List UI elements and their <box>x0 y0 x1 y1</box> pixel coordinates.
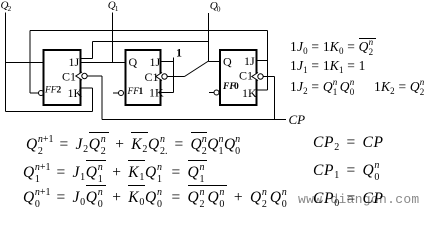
pin label FF1 1K <box>149 86 164 100</box>
wire Qbar2 left vertical <box>29 31 31 94</box>
node Q0 label <box>210 0 221 14</box>
wire FF2 Q output <box>6 62 44 64</box>
svg-text:1K: 1K <box>242 86 257 100</box>
wire Q1 vertical <box>112 13 114 63</box>
designator FF1 <box>127 87 144 97</box>
svg-text:2: 2 <box>8 4 12 13</box>
equation Q0 next state <box>23 185 290 207</box>
svg-text:C1: C1 <box>62 70 76 84</box>
node Q2 label <box>1 0 12 13</box>
watermark <box>298 192 420 207</box>
flip-flop FF1 box <box>126 50 161 105</box>
svg-text:1: 1 <box>176 46 182 60</box>
pin label FF1 1J <box>150 55 161 69</box>
bubble FF2 Qbar <box>39 91 44 96</box>
wire FF2 1K input <box>81 87 93 89</box>
wire FF0 1J input <box>257 60 268 62</box>
bubble FF1 C1 <box>162 74 167 79</box>
svg-text:FF: FF <box>44 86 57 96</box>
wire diagonal Q0 to FF1 C1 <box>185 61 209 77</box>
wire FF0 Qbar stub <box>209 92 214 94</box>
wire CP right vertical <box>274 77 276 120</box>
svg-text:1K: 1K <box>68 86 83 100</box>
svg-text:C1: C1 <box>239 69 253 83</box>
svg-text:1J: 1J <box>69 55 80 69</box>
wire Q0 branch vertical <box>92 42 94 59</box>
pin label FF0 1K <box>242 86 257 100</box>
wire FF0 1K input <box>257 89 268 91</box>
equation CP1 = Q0^n <box>313 162 382 180</box>
wire FF2 Qbar stub <box>30 92 39 94</box>
wire Q0 vertical <box>208 13 210 61</box>
pin label FF1 Q <box>129 55 138 69</box>
designator FF0 <box>222 82 239 92</box>
pin label FF0 1J <box>244 54 255 68</box>
wire FF1 Q output to FF2 1J <box>81 62 126 64</box>
pin label FF2 1K <box>68 86 83 100</box>
svg-text:0: 0 <box>234 82 239 92</box>
equation CP2 = CP <box>313 134 384 152</box>
wire FF1 C1 horizontal <box>167 76 185 78</box>
pin label FF0 C1 <box>239 69 253 83</box>
wire FF0 JK vertical <box>267 31 269 91</box>
bubble FF1 Qbar <box>119 91 124 96</box>
wire Q0 branch horizontal <box>93 41 209 43</box>
wire CP left vertical <box>101 76 103 120</box>
wire FF1 1J input <box>161 61 174 63</box>
clock wedge FF2 <box>76 72 82 80</box>
bubble FF0 C1 <box>258 74 263 79</box>
svg-text:2: 2 <box>57 86 62 96</box>
equation 1K2 = Q2^n <box>374 79 426 96</box>
wire FF0 C1 horizontal <box>263 76 275 78</box>
svg-text:1J: 1J <box>244 54 255 68</box>
svg-text:0: 0 <box>217 5 221 14</box>
clock wedge FF0 <box>252 73 258 81</box>
constant 1 label <box>176 46 182 60</box>
flip-flop FF0 box <box>220 50 257 105</box>
wire FF2 C1 to CP <box>87 75 102 77</box>
designator FF2 <box>44 86 62 96</box>
wire constant-1 vertical <box>173 58 175 93</box>
node Q1 label <box>108 0 119 13</box>
equation Q1 next state <box>23 160 207 182</box>
svg-text:FF: FF <box>127 87 140 97</box>
svg-text:1: 1 <box>139 87 144 97</box>
svg-text:1J: 1J <box>150 55 161 69</box>
equation Q2 next state <box>26 132 241 154</box>
flip-flop FF2 box <box>44 50 81 105</box>
wire Q2 vertical <box>5 13 7 112</box>
wire CP horizontal <box>102 119 286 121</box>
wire Qbar2 top horizontal <box>30 30 268 32</box>
svg-text:1: 1 <box>115 4 119 13</box>
equation CP0 = CP <box>313 190 384 208</box>
equation 1J2 = Q1^n Q0^n <box>290 79 357 96</box>
equation 1J1 = 1K1 = 1 <box>290 58 366 75</box>
clock wedge FF1 <box>156 73 162 81</box>
pin label FF2 C1 <box>62 70 76 84</box>
svg-text:CP: CP <box>289 112 306 127</box>
pin label FF1 C1 <box>145 70 159 84</box>
bubble FF2 C1 <box>82 73 87 78</box>
wire FF2 1J upper input <box>81 58 93 60</box>
bubble FF0 Qbar <box>214 90 219 95</box>
wire 1K2 loop vertical <box>92 88 94 112</box>
equation 1J0 = 1K0 = Qbar2^n <box>290 38 376 56</box>
pin label FF0 Q <box>223 55 232 69</box>
pin label FF2 1J <box>69 55 80 69</box>
wire Q0 to FF0 Q output <box>209 61 221 63</box>
wire FF1 Qbar stub <box>113 92 119 94</box>
node CP label <box>289 112 306 127</box>
svg-text:Q: Q <box>129 55 138 69</box>
wire 1K2 bottom return <box>6 111 93 113</box>
svg-text:Q: Q <box>223 55 232 69</box>
wire FF1 1K input <box>161 92 174 94</box>
